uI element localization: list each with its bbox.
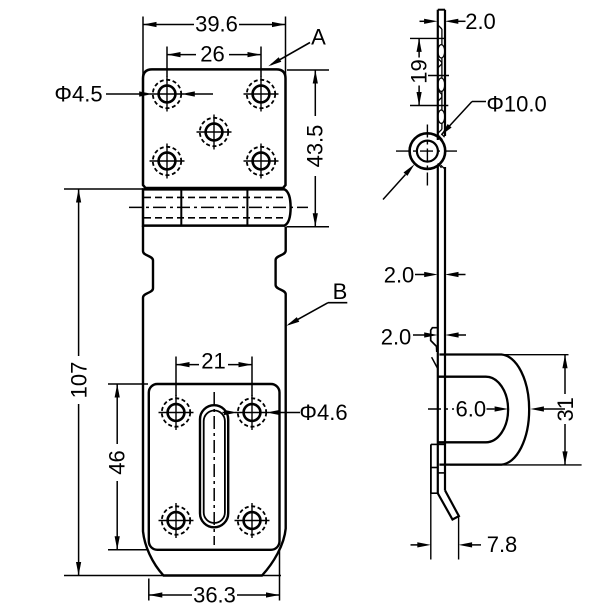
staple upper tab inner line	[432, 357, 438, 368]
hinge knuckle divider left	[180, 189, 182, 225]
staple loop outer	[439, 355, 529, 465]
dim 19 ext top	[410, 37, 445, 39]
strap outline	[143, 226, 286, 576]
dim 21 ext left	[175, 357, 177, 397]
dim 26 ext left	[166, 47, 168, 78]
svg-text:19: 19	[407, 59, 432, 83]
dim 2.0 top arrows	[420, 20, 426, 22]
side strap left edge	[437, 10, 439, 140]
dim 31 ext top	[505, 354, 569, 356]
hinge centerline	[129, 206, 308, 208]
svg-text:A: A	[311, 25, 326, 50]
dim 43.5 ext top	[287, 69, 329, 71]
slot centerline	[213, 392, 215, 545]
hinge pin hidden line upper	[144, 196, 284, 198]
hole bottom-plate top-left	[168, 404, 185, 421]
mid hole tick	[428, 75, 449, 77]
hole center	[206, 124, 223, 141]
dim 2.0 low arrows	[413, 334, 425, 336]
label phi4.6 arrow right	[266, 410, 280, 415]
svg-text:Φ4.6: Φ4.6	[299, 400, 347, 425]
dim 46 line	[116, 384, 118, 444]
label phi4.5 arrow right	[181, 91, 195, 96]
hole bottom-plate bottom-right	[244, 512, 261, 529]
side strap top cap	[438, 9, 445, 11]
svg-text:Φ4.5: Φ4.5	[54, 81, 102, 106]
hinge barrel outline	[143, 189, 291, 225]
dim 36.3 arrows	[149, 592, 163, 597]
hinge knuckle divider right	[246, 189, 248, 225]
dim 36.3 ext right	[279, 550, 281, 601]
dim 43.5 ext bottom	[287, 226, 330, 228]
dim 19 arrows	[417, 38, 422, 52]
slot inner outline	[204, 411, 225, 524]
label phi4.6 arrow left	[224, 410, 238, 415]
dim 26 ext right	[260, 47, 262, 78]
dim 107 line	[78, 189, 80, 356]
hinge barrel circle inner	[417, 141, 438, 162]
staple upper tab	[431, 328, 438, 352]
dim 107 ext bottom	[64, 575, 164, 577]
svg-text:2.0: 2.0	[465, 9, 496, 34]
dim 19 line	[418, 38, 420, 57]
label A leader	[271, 43, 310, 65]
label B leader	[328, 302, 347, 304]
bottom plate outline	[149, 384, 280, 550]
slot outer outline	[200, 405, 228, 527]
svg-text:21: 21	[201, 349, 225, 374]
dim 7.8 ext right	[458, 517, 460, 560]
svg-text:26: 26	[200, 42, 224, 67]
dim 21 ext right	[251, 357, 253, 397]
dim 36.3 line	[149, 594, 192, 596]
svg-text:2.0: 2.0	[384, 262, 415, 287]
label B arrow	[286, 317, 299, 326]
dim 26 line	[167, 54, 196, 56]
dim 7.8 arrows	[411, 544, 419, 546]
svg-text:39.6: 39.6	[195, 12, 238, 37]
hole top-right (phi4.5)	[253, 86, 270, 103]
svg-text:2.0: 2.0	[381, 325, 412, 350]
top plate outline	[143, 69, 286, 188]
dim 36.3 ext left	[148, 579, 150, 601]
svg-text:7.8: 7.8	[487, 532, 518, 557]
dim 31 arrows	[562, 355, 567, 369]
dim 39.6 ext right	[285, 17, 287, 79]
hole top-left (phi4.5)	[159, 86, 176, 103]
svg-text:36.3: 36.3	[193, 583, 236, 608]
label phi10.0 leader	[472, 101, 486, 103]
dim 31 line	[564, 355, 566, 394]
dim 46 ext top	[108, 383, 148, 385]
staple loop inner	[438, 377, 509, 443]
hinge barrel circle outer	[410, 133, 446, 169]
hole mid-left	[159, 153, 176, 170]
circle arrow lower-left	[383, 175, 406, 200]
dim 46 ext bottom	[108, 549, 148, 551]
hole section center	[438, 58, 442, 62]
dim 6.0 centerline	[428, 408, 454, 410]
label phi10.0 arrow	[441, 124, 452, 136]
svg-text:43.5: 43.5	[303, 125, 328, 168]
circle centerline vertical	[426, 125, 428, 186]
dim 46 arrows	[115, 384, 120, 398]
svg-text:46: 46	[105, 450, 130, 474]
dim 31 ext bottom	[450, 464, 582, 466]
dim 6.0 arrows	[487, 408, 495, 410]
circle annulus hatch	[439, 136, 443, 140]
label phi4.6 leader left	[223, 412, 227, 414]
svg-text:6.0: 6.0	[456, 396, 487, 421]
dim 43.5 arrows	[313, 70, 318, 84]
label phi4.5 arrow left	[139, 91, 153, 96]
hole bottom-plate bottom-left	[168, 512, 185, 529]
circle centerline horizontal	[396, 150, 460, 152]
dim 26 arrows	[167, 52, 181, 57]
svg-text:107: 107	[66, 362, 91, 399]
dim 21 arrows	[176, 362, 190, 367]
staple lower tab	[431, 443, 445, 445]
svg-text:Φ10.0: Φ10.0	[486, 92, 546, 117]
dim 19 ext bottom	[410, 105, 448, 107]
dim 43.5 line	[314, 70, 316, 116]
dim 7.8 ext left	[430, 494, 432, 560]
dim 2.0 mid arrows	[415, 274, 425, 276]
label A arrow	[268, 57, 281, 66]
svg-text:31: 31	[553, 397, 578, 421]
hole mid-right	[253, 153, 270, 170]
hinge pin hidden line lower	[144, 217, 284, 219]
dim 21 line	[176, 364, 199, 366]
svg-text:B: B	[333, 279, 348, 304]
hole section row2	[438, 90, 442, 94]
dim 39.6 ext left	[142, 17, 144, 79]
side strap right edge	[444, 10, 446, 136]
label phi4.5 leader	[106, 93, 146, 95]
hole section row1	[438, 25, 442, 29]
hole bottom-plate top-right (phi4.6)	[244, 404, 261, 421]
dim 39.6 arrows	[143, 22, 157, 27]
dim 107 ext top	[64, 188, 143, 190]
bent foot	[438, 491, 459, 520]
dim 107 arrows	[76, 189, 81, 203]
dim 39.6 line	[143, 24, 194, 26]
